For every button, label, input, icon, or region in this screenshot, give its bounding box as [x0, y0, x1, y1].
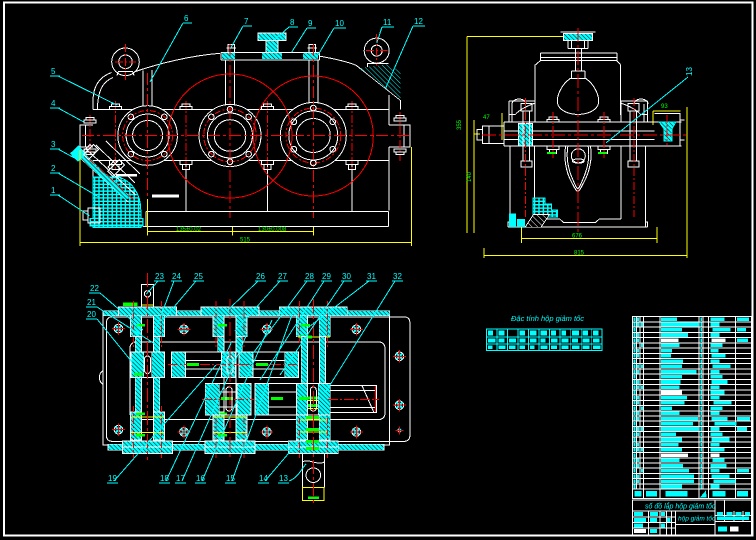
- bolt hole plan d: [350, 323, 363, 336]
- svg-text:27: 27: [278, 272, 287, 281]
- gear1 I-beam rowA: [168, 352, 239, 378]
- svg-text:12: 12: [414, 17, 423, 26]
- dim line 135 and 130 yellow: [148, 199, 314, 236]
- bearing top shaft1: [119, 301, 177, 348]
- callout 13 side rotated: [606, 67, 694, 143]
- callout 6: [150, 14, 192, 82]
- bolt hole F2 c: [246, 114, 252, 120]
- bearing top shaft2: [201, 301, 259, 348]
- bearing bottom shaft2: [205, 406, 255, 458]
- cover top cap plate: [540, 53, 617, 61]
- bolt hole plan e: [112, 423, 125, 436]
- bolt circle F2 red dashed: [204, 109, 257, 162]
- gear tip circle shaft3 red: [253, 76, 373, 196]
- svg-text:28: 28: [305, 272, 314, 281]
- bolt hole F1 c: [128, 151, 134, 157]
- bearing boss lines above band: [143, 60, 318, 110]
- drain hex bolt B: [106, 158, 125, 177]
- pinion2 I-beam rowB: [202, 384, 254, 415]
- bearing bottom shaft1: [123, 406, 173, 458]
- drain inclined wall: [96, 141, 140, 183]
- flange F2 bearing cap: [199, 105, 261, 167]
- shaft2 lines: [224, 307, 236, 453]
- wire housing top outline: [134, 53, 401, 109]
- centerline shaft2 vertical: [229, 44, 231, 218]
- input shaft top extension: [123, 284, 153, 306]
- callout 7: [230, 17, 252, 49]
- callout 31: [305, 272, 377, 330]
- svg-text:2: 2: [51, 164, 56, 173]
- spacer I-beam rowA right: [239, 352, 299, 378]
- bolt hole plan h: [350, 426, 363, 439]
- callout 21: [86, 298, 158, 346]
- pin hole plan right3: [395, 426, 403, 434]
- band bolt left: [547, 117, 559, 154]
- svg-text:10: 10: [335, 19, 344, 28]
- svg-text:22: 22: [90, 284, 99, 293]
- callout 10: [317, 19, 346, 56]
- svg-text:32: 32: [393, 272, 402, 281]
- bolt hole F3 e: [330, 146, 336, 152]
- bottom left hatch: [533, 198, 558, 217]
- green fit marks side: [547, 152, 556, 154]
- bolt hole plan right2: [393, 399, 406, 412]
- bolt hole F3 a: [311, 105, 317, 111]
- bolt hole plan c: [260, 323, 273, 336]
- svg-text:25: 25: [194, 272, 203, 281]
- wire housing right wall: [388, 95, 390, 211]
- bearing tower right upper: [621, 99, 648, 122]
- wire band left tab: [80, 125, 93, 147]
- callout 30: [280, 272, 352, 375]
- bolt hole F3 b: [291, 119, 297, 125]
- bearing tower left upper: [509, 99, 535, 122]
- wire band right tab: [389, 125, 410, 147]
- svg-text:140: 140: [467, 171, 473, 182]
- lower bell pocket: [565, 147, 591, 192]
- breather cap M1: [258, 33, 286, 52]
- split band lines: [504, 122, 682, 146]
- svg-text:3: 3: [51, 140, 56, 149]
- callout 22: [89, 284, 143, 330]
- shaft sleeves hatched: [135, 337, 325, 413]
- callout 26: [228, 272, 266, 310]
- bolt circle F3 red dashed: [286, 108, 341, 163]
- svg-text:815: 815: [574, 251, 585, 257]
- callout 12: [386, 17, 425, 88]
- shaft2 centerline red: [229, 299, 231, 460]
- centerline horizontal red: [482, 134, 688, 136]
- svg-text:hộp giảm tốc: hộp giảm tốc: [678, 515, 716, 523]
- svg-text:số đồ lắp hộp giảm tốc: số đồ lắp hộp giảm tốc: [645, 502, 716, 511]
- wall band top hatched: [103, 311, 390, 316]
- band bolt right: [598, 117, 610, 154]
- svg-text:6: 6: [184, 14, 189, 23]
- breather cyan cap: [561, 32, 596, 49]
- svg-text:29: 29: [322, 272, 331, 281]
- callout 32: [325, 272, 403, 393]
- svg-text:515: 515: [240, 238, 251, 244]
- oil ring circle: [571, 149, 585, 163]
- shaft1 lines: [142, 305, 154, 452]
- hatch wedge top right corner: [360, 64, 401, 100]
- callout 14: [258, 440, 300, 483]
- callout 28: [251, 272, 315, 356]
- centerline main vertical red: [577, 28, 579, 234]
- oil drain chute hatched: [90, 177, 143, 228]
- gear2 I-beam rowB: [226, 356, 330, 415]
- callout 2: [50, 164, 98, 197]
- rib under band at bolt 4: [351, 161, 353, 212]
- long bolt left: [521, 103, 532, 166]
- flange F3 bearing cap: [280, 103, 346, 169]
- wall band bottom hatched: [108, 444, 384, 450]
- callout 1: [50, 186, 89, 216]
- centerline shaft3 vertical: [312, 44, 314, 218]
- callout 23: [146, 272, 165, 294]
- band bolt 3: [261, 104, 273, 170]
- svg-text:5: 5: [51, 67, 56, 76]
- svg-text:31: 31: [367, 272, 376, 281]
- rib under band at bolt 2: [185, 161, 187, 212]
- callout 9: [292, 19, 317, 52]
- callout 13: [278, 464, 306, 483]
- cover flare left: [509, 103, 647, 115]
- bolt hole F1 a: [128, 114, 134, 120]
- bolt hole F1 b: [162, 114, 168, 120]
- callout 18: [159, 341, 232, 483]
- bolt hole F2 d: [209, 151, 215, 157]
- bolt hole F1 d: [162, 151, 168, 157]
- bolt hole F3 c: [330, 119, 336, 125]
- svg-text:13: 13: [279, 474, 288, 483]
- right cap assembly: [655, 113, 685, 146]
- left shaft key hatch: [519, 124, 533, 146]
- gear tip circle shaft2 red: [168, 74, 292, 198]
- bolt hole F3 d: [291, 146, 297, 152]
- svg-text:7: 7: [244, 17, 249, 26]
- bolt centerlines red side: [526, 98, 667, 217]
- drain pipe: [79, 149, 136, 202]
- svg-text:26: 26: [256, 272, 265, 281]
- callout 24: [154, 272, 182, 333]
- svg-text:18: 18: [160, 474, 169, 483]
- centerline horizontal main: [82, 135, 412, 137]
- callout 11: [377, 18, 394, 43]
- wire housing bottom: [143, 212, 389, 227]
- svg-text:11: 11: [383, 18, 392, 27]
- callout 3: [50, 140, 75, 158]
- callout 29: [260, 272, 332, 380]
- svg-text:23: 23: [155, 272, 164, 281]
- callout 5: [50, 67, 117, 105]
- callout 25: [163, 272, 204, 320]
- bolt hole plan f: [178, 426, 191, 439]
- svg-text:47: 47: [483, 115, 490, 121]
- svg-text:1: 1: [51, 186, 56, 195]
- callout 15: [225, 312, 293, 483]
- eye bolt right: [364, 38, 389, 63]
- wire housing left wall: [93, 73, 113, 212]
- svg-text:30: 30: [342, 272, 351, 281]
- drain plug top cyan: [70, 145, 87, 162]
- bolt centerlines short red: [90, 101, 400, 171]
- svg-text:135±0.02: 135±0.02: [176, 227, 202, 233]
- dipstick rod: [572, 49, 586, 79]
- band bolt 4: [346, 104, 358, 170]
- callout 16: [195, 320, 272, 483]
- bolt hole F2 b: [209, 114, 215, 120]
- flange F1 bearing cap: [118, 106, 178, 166]
- svg-text:9: 9: [308, 19, 313, 28]
- housing upper cover: [535, 61, 621, 115]
- bolt circle F1 red dashed: [123, 111, 173, 161]
- bolt hole plan g: [260, 426, 273, 439]
- bearing bottom shaft3: [288, 397, 338, 459]
- callout 20: [86, 310, 132, 362]
- eye bolt left: [112, 48, 140, 76]
- dim line 515 yellow: [80, 147, 412, 246]
- stud bolt on cover left: [227, 45, 237, 53]
- bolt hole F2 e: [246, 151, 252, 157]
- svg-text:Đặc tính hộp giảm tốc: Đặc tính hộp giảm tốc: [511, 314, 584, 323]
- svg-text:93: 93: [661, 104, 668, 110]
- callout 19: [107, 365, 216, 483]
- svg-text:20: 20: [87, 310, 96, 319]
- band bolt 1: [110, 104, 122, 170]
- callout 17: [175, 334, 247, 483]
- oil level bar 1: [116, 174, 137, 177]
- bolt hole F3 f: [311, 160, 317, 166]
- shaft1 centerline red: [147, 273, 149, 460]
- svg-text:13: 13: [685, 67, 694, 76]
- bolt hole plan right1: [393, 350, 406, 363]
- svg-text:355: 355: [457, 119, 463, 130]
- callout 4: [50, 99, 83, 122]
- output shaft right extension: [328, 386, 379, 413]
- shaft3 lines: [307, 307, 319, 454]
- svg-text:21: 21: [87, 298, 96, 307]
- upper bell pocket: [557, 78, 598, 114]
- housing body rect plan: [103, 313, 390, 445]
- wire split-band top line: [93, 109, 389, 111]
- pinion1 on shaft1 rowA: [131, 352, 165, 378]
- output shaft bottom extension: [302, 454, 324, 501]
- lower body sides: [510, 146, 645, 227]
- dim lines yellow left/top/right: [467, 36, 687, 258]
- left shaft end box: [477, 126, 504, 144]
- housing inner wall rect: [130, 342, 385, 420]
- svg-text:24: 24: [172, 272, 181, 281]
- bolt hole plan a: [112, 322, 125, 335]
- svg-text:676: 676: [572, 234, 583, 240]
- drain hex bolt A: [82, 143, 99, 160]
- inspection cover plate: [221, 52, 319, 59]
- callout 8: [275, 18, 298, 40]
- housing flange rect plan: [107, 317, 410, 441]
- base: [508, 219, 648, 227]
- long bolt right: [628, 103, 639, 166]
- bolt hole plan b: [178, 323, 191, 336]
- tab bolt right: [394, 116, 406, 155]
- rib under band at bolt 3: [266, 161, 268, 212]
- wire split-band bottom line: [93, 160, 389, 162]
- band bolt 2: [180, 104, 192, 170]
- stud bolt on cover right: [308, 45, 318, 53]
- callout 27: [235, 272, 288, 331]
- svg-text:130±0.008: 130±0.008: [258, 227, 287, 233]
- bolt hole F2 f: [227, 159, 233, 165]
- bolt hole F2 a: [227, 106, 233, 112]
- centerline shaft1 vertical: [147, 73, 149, 216]
- oil level bar 2: [152, 195, 179, 198]
- bearing top shaft3: [279, 301, 347, 348]
- tab bolt left: [84, 118, 96, 155]
- drain bottom plug: [83, 208, 100, 223]
- shaft3 centerline red: [312, 299, 314, 505]
- left notch: [100, 371, 104, 385]
- svg-text:4: 4: [51, 99, 56, 108]
- svg-text:8: 8: [290, 18, 295, 27]
